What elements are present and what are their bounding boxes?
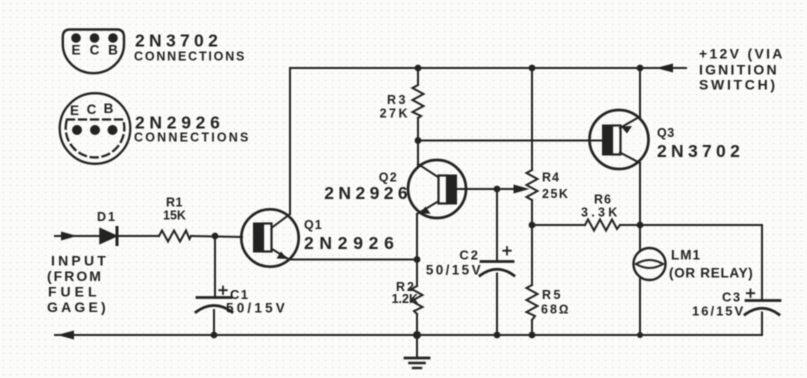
wire R6 to Q3 collector node — [620, 224, 640, 226]
svg-text:Q1: Q1 — [304, 218, 323, 232]
resistor R1 — [159, 231, 191, 242]
svg-text:25K: 25K — [542, 187, 569, 201]
svg-text:2N2926: 2N2926 — [304, 233, 400, 253]
wire R5 branch — [531, 225, 533, 285]
svg-text:50/15V: 50/15V — [426, 263, 483, 278]
arrow R4 wiper (pointing right at R4) — [514, 185, 530, 194]
svg-text:LM1: LM1 — [671, 248, 701, 263]
svg-text:2N3702: 2N3702 — [657, 141, 744, 161]
svg-text:CONNECTIONS: CONNECTIONS — [134, 50, 246, 64]
transistor Q2 2N2926 — [408, 160, 466, 218]
svg-text:50/15V: 50/15V — [226, 301, 288, 316]
label R2 1.2K — [392, 280, 418, 306]
svg-text:R4: R4 — [542, 171, 560, 185]
node Q2 base / C2 junction — [494, 186, 501, 193]
wire Q2 collector node to Q3 base — [418, 140, 602, 142]
wire bottom rail — [55, 334, 762, 336]
node R2 bottom / ground junction — [413, 331, 421, 339]
svg-text:Q3: Q3 — [657, 126, 675, 140]
svg-text:R3: R3 — [387, 93, 408, 107]
label R3 27K — [380, 93, 410, 121]
svg-text:C2: C2 — [459, 248, 480, 263]
2N2926 package outline circle (pinout diagram) — [60, 93, 131, 164]
label C1 plus — [219, 287, 226, 295]
node LM1 bottom junction — [637, 332, 643, 338]
wire D1 to R1 — [117, 235, 159, 237]
svg-text:(FROM: (FROM — [47, 268, 103, 284]
svg-text:E: E — [70, 103, 79, 118]
resistor R6 — [585, 220, 620, 231]
label 2N3702 CONNECTIONS — [134, 31, 246, 64]
ground — [405, 335, 429, 368]
2N3702 package outline (pinout diagram) — [63, 30, 124, 74]
node junction C1/input — [212, 233, 219, 240]
svg-text:3.3K: 3.3K — [581, 206, 621, 220]
node Q1 emitter / Q2 emitter junction — [414, 256, 421, 263]
transistor Q1 2N2926 — [241, 209, 298, 266]
label R5 68ohm — [541, 288, 571, 317]
wire R2 to ground rail — [416, 314, 418, 335]
svg-text:GAGE): GAGE) — [47, 299, 109, 315]
label R4 25K — [542, 171, 569, 202]
capacitor C3 — [745, 301, 780, 336]
svg-text:+12V (VIA: +12V (VIA — [699, 46, 785, 62]
label Q3 2N3702 — [657, 126, 744, 161]
resistor R5 — [527, 285, 538, 320]
capacitor C2 — [480, 262, 514, 336]
node rail/R3 junction — [415, 65, 422, 72]
resistor R2 — [412, 286, 423, 314]
2N3702 pinout dot E — [71, 33, 81, 43]
svg-text:D1: D1 — [97, 210, 117, 224]
svg-text:68Ω: 68Ω — [541, 303, 571, 317]
wire C2 branch — [496, 189, 498, 260]
node R3 bottom / Q3 base junction — [415, 137, 422, 144]
resistor R4 (with wiper) — [527, 170, 538, 200]
node R5 bottom junction — [529, 332, 536, 339]
wire Q1 collector riser to rail — [289, 68, 291, 213]
wire Q2 emitter down to R2 — [416, 214, 418, 286]
wire Q3 emitter to rail — [639, 68, 641, 117]
svg-text:B: B — [108, 43, 118, 58]
svg-text:15K: 15K — [163, 209, 186, 223]
node rail/R4 junction — [529, 65, 536, 72]
svg-text:27K: 27K — [380, 107, 410, 121]
svg-text:R6: R6 — [594, 193, 612, 207]
wire node to LM1 — [639, 225, 641, 251]
wire input lead — [55, 235, 100, 237]
svg-text:R1: R1 — [166, 196, 183, 210]
label C2 plus — [503, 247, 510, 255]
svg-text:C3: C3 — [722, 290, 742, 305]
label C3 16/15V — [692, 290, 745, 319]
node C1 bottom junction — [211, 332, 218, 339]
label R6 3.3K — [581, 193, 621, 220]
transistor Q3 2N3702 — [590, 110, 649, 169]
wire R1 to Q1 base — [191, 236, 242, 237]
arrow on input wire (pointing right) — [61, 232, 77, 241]
svg-text:CONNECTIONS: CONNECTIONS — [134, 131, 251, 145]
label Q1 2N2926 — [304, 218, 400, 253]
2N2926 pinout pin labels E C B — [70, 101, 114, 118]
svg-text:INPUT: INPUT — [51, 253, 109, 269]
wire top +12V rail — [290, 67, 686, 69]
svg-text:2N3702: 2N3702 — [135, 31, 222, 51]
label INPUT (FROM FUEL GAGE) — [47, 253, 109, 316]
2N3702 pinout dot B — [108, 33, 118, 43]
node Q3 collector / LM1 junction — [637, 222, 644, 229]
label LM1 (OR RELAY) — [669, 248, 754, 281]
svg-text:SWITCH): SWITCH) — [699, 77, 778, 93]
wire LM1 to rail — [639, 277, 641, 335]
svg-text:C: C — [87, 102, 97, 117]
2N2926 pinout dot C — [90, 125, 100, 135]
wire Q2 base to R4 wiper — [456, 188, 518, 190]
wire node to C3 branch — [640, 225, 762, 299]
svg-text:R5: R5 — [542, 288, 563, 302]
svg-text:FUEL: FUEL — [48, 284, 101, 300]
diode D1 — [100, 228, 117, 245]
wire Q3 collector down — [639, 163, 641, 225]
svg-text:IGNITION: IGNITION — [699, 62, 779, 78]
label +12V (VIA IGNITION SWITCH) — [699, 46, 785, 93]
svg-text:(OR RELAY): (OR RELAY) — [669, 266, 754, 281]
label C2 50/15V — [426, 248, 483, 278]
wire rail to R4 — [531, 68, 533, 170]
capacitor C1 — [196, 298, 232, 336]
node C2 bottom junction — [494, 332, 501, 339]
wire rail to R3 — [417, 68, 419, 85]
svg-text:16/15V: 16/15V — [692, 304, 745, 319]
node rail/Q3 emitter junction — [637, 65, 644, 72]
wire R3 to Q2 collector — [417, 118, 419, 165]
wire node to R6 — [532, 224, 585, 226]
label R1 15K — [163, 196, 186, 223]
node R4/R5/R6 junction — [529, 222, 536, 229]
label C3 plus — [747, 290, 754, 298]
resistor R3 — [413, 85, 424, 118]
2N3702 pinout pin labels E C B — [71, 43, 118, 58]
label Q2 2N2926 — [324, 171, 412, 204]
svg-text:E: E — [71, 43, 80, 58]
lamp LM1 — [634, 248, 666, 280]
arrow on +12V rail (pointing left) — [656, 64, 673, 73]
wire C1 branch — [214, 236, 216, 296]
wire Q1 emitter to R2 node — [289, 259, 417, 261]
svg-text:1.2K: 1.2K — [392, 292, 418, 306]
arrow on bottom rail (pointing left) — [57, 331, 74, 340]
2N2926 pinout dot E — [72, 125, 82, 135]
wire R5 to rail — [531, 320, 533, 335]
svg-text:2N2926: 2N2926 — [324, 183, 412, 203]
wire R4 to node — [531, 200, 533, 225]
2N3702 pinout dot C — [90, 33, 100, 43]
2N2926 package dashed flat-side outline — [66, 120, 125, 158]
label C1 50/15V — [226, 287, 288, 316]
svg-text:B: B — [104, 101, 114, 116]
2N2926 pinout dot B — [108, 125, 118, 135]
label 2N2926 CONNECTIONS — [134, 113, 251, 145]
svg-text:2N2926: 2N2926 — [135, 113, 225, 133]
svg-text:C: C — [90, 43, 100, 58]
